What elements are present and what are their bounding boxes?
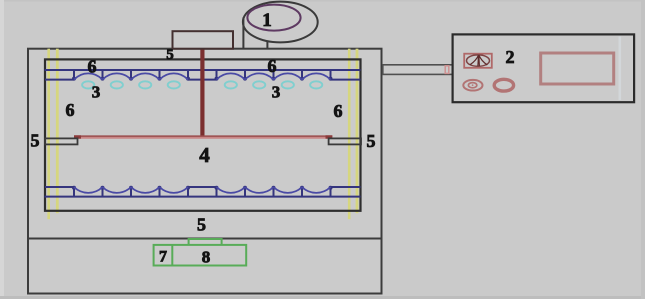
bottom row flat bay 188-216: [188, 186, 217, 188]
bottom row flat bay 330-360: [331, 186, 361, 188]
bottom row post tick x=102: [102, 188, 104, 197]
top row curtain arc 102-131: [103, 73, 132, 79]
top row curtain arc 131-160: [131, 73, 160, 79]
nozzle bubble 3 #6: [253, 81, 265, 88]
motor inner ellipse: [247, 5, 300, 31]
left edge light strip: [0, 0, 4, 299]
top row hanger tick x=74: [73, 70, 75, 79]
motor support line left: [242, 18, 244, 49]
pipe pink cap: [445, 66, 449, 74]
svg-text:5: 5: [31, 131, 40, 151]
bottom row flat bay 45-74: [45, 186, 74, 188]
top row curtain arc 302-330: [302, 73, 331, 79]
top row hanger tick x=188: [187, 70, 189, 79]
right edge dark strip: [641, 0, 645, 299]
bottom edge dark strip: [0, 296, 645, 299]
svg-text:5: 5: [166, 47, 174, 63]
svg-text:7: 7: [159, 249, 167, 266]
top row hanger tick x=102: [102, 70, 104, 79]
top row curtain arc 216-245: [217, 73, 246, 79]
bottom row post tick x=302: [301, 188, 303, 197]
bottom row post tick x=131: [130, 188, 132, 197]
right support bracket: [329, 138, 361, 144]
nozzle bubble 3 #2: [111, 81, 123, 88]
svg-text:1: 1: [262, 10, 272, 31]
bottom row sag arc 216-245: [217, 187, 246, 193]
bottom row sag arc 74-102: [74, 187, 103, 193]
svg-text:5: 5: [367, 131, 376, 151]
svg-text:3: 3: [92, 83, 101, 102]
top edge shade strip: [0, 0, 645, 2]
top row curtain arc 160-188: [160, 73, 189, 79]
bottom row post tick x=188: [187, 188, 189, 197]
baffle rail bottom row line: [45, 196, 361, 198]
nozzle bubble 3 #1: [82, 81, 94, 88]
svg-text:2: 2: [506, 47, 515, 67]
nozzle bubble 3 #3: [139, 81, 151, 88]
bottom row sag arc 274-302: [274, 187, 303, 193]
panel light reflection line: [619, 37, 622, 101]
pedestal base box: [28, 239, 382, 294]
tank inner box 5: [45, 59, 361, 210]
bottom row post tick x=216: [216, 188, 218, 197]
left yellow electrode line a: [47, 49, 50, 220]
outer chamber box: [28, 49, 382, 239]
top row hanger tick x=160: [159, 70, 161, 79]
heater control box 7-8: [154, 245, 247, 266]
top row flat bay 330-360: [331, 79, 361, 81]
right yellow electrode line b: [356, 49, 359, 214]
right yellow electrode line a: [348, 49, 351, 220]
left support bracket: [45, 138, 78, 144]
bottom row sag arc 302-330: [302, 187, 331, 193]
svg-text:6: 6: [334, 101, 343, 121]
top row flat bay 188-216: [188, 79, 217, 81]
motor outer ellipse 1: [243, 2, 318, 43]
shelf plate 4 top edge: [74, 135, 332, 137]
bottom row sag arc 160-188: [160, 187, 189, 193]
top row curtain arc 74-102: [74, 73, 103, 79]
nozzle bubble 3 #7: [282, 81, 294, 88]
top row hanger tick x=245: [244, 70, 246, 79]
top row hanger tick x=216: [216, 70, 218, 79]
motor mount box: [173, 31, 234, 49]
motor support line right: [266, 42, 268, 49]
indicator O icon: [494, 79, 513, 91]
svg-text:4: 4: [199, 143, 210, 167]
top row flat bay 45-74: [45, 79, 74, 81]
bottom row post tick x=274: [273, 188, 275, 197]
shelf plate 4 right end cap: [326, 135, 333, 138]
top row hanger tick x=330: [330, 70, 332, 79]
bottom row sag arc 245-274: [245, 187, 274, 193]
top row hanger tick x=302: [301, 70, 303, 79]
fan indicator box: [464, 54, 492, 68]
display screen: [541, 53, 614, 84]
shelf plate 4 left end cap: [74, 135, 81, 138]
left yellow electrode line b: [56, 49, 59, 214]
stirrer shaft: [200, 49, 204, 138]
top row hanger tick x=274: [273, 70, 275, 79]
nozzle bubble 3 #8: [310, 81, 322, 88]
bottom row post tick x=245: [244, 188, 246, 197]
svg-text:5: 5: [197, 215, 206, 235]
bottom row sag arc 102-131: [103, 187, 132, 193]
svg-text:6: 6: [66, 100, 75, 120]
top row hanger tick x=131: [130, 70, 132, 79]
bottom row sag arc 131-160: [131, 187, 160, 193]
nozzle bubble 3 #5: [225, 81, 237, 88]
top row curtain arc 274-302: [274, 73, 303, 79]
heater tab: [189, 239, 222, 245]
control panel box 2: [453, 34, 634, 102]
fan icon ellipse: [467, 55, 490, 66]
svg-text:6: 6: [268, 56, 277, 76]
bottom row post tick x=160: [159, 188, 161, 197]
shelf plate 4 body: [74, 136, 332, 139]
svg-text:3: 3: [272, 83, 281, 102]
nozzle bubble 3 #4: [168, 81, 180, 88]
bottom row post tick x=74: [73, 188, 75, 197]
baffle rail top row line 6: [45, 69, 361, 71]
svg-text:6: 6: [88, 57, 97, 77]
svg-text:8: 8: [202, 248, 211, 267]
heater box divider: [171, 245, 173, 266]
bottom row post tick x=330: [330, 188, 332, 197]
connector pipe to panel: [383, 65, 453, 75]
indicator rings icon: [463, 80, 482, 91]
top row curtain arc 245-274: [245, 73, 274, 79]
fan icon blades: [470, 55, 488, 66]
